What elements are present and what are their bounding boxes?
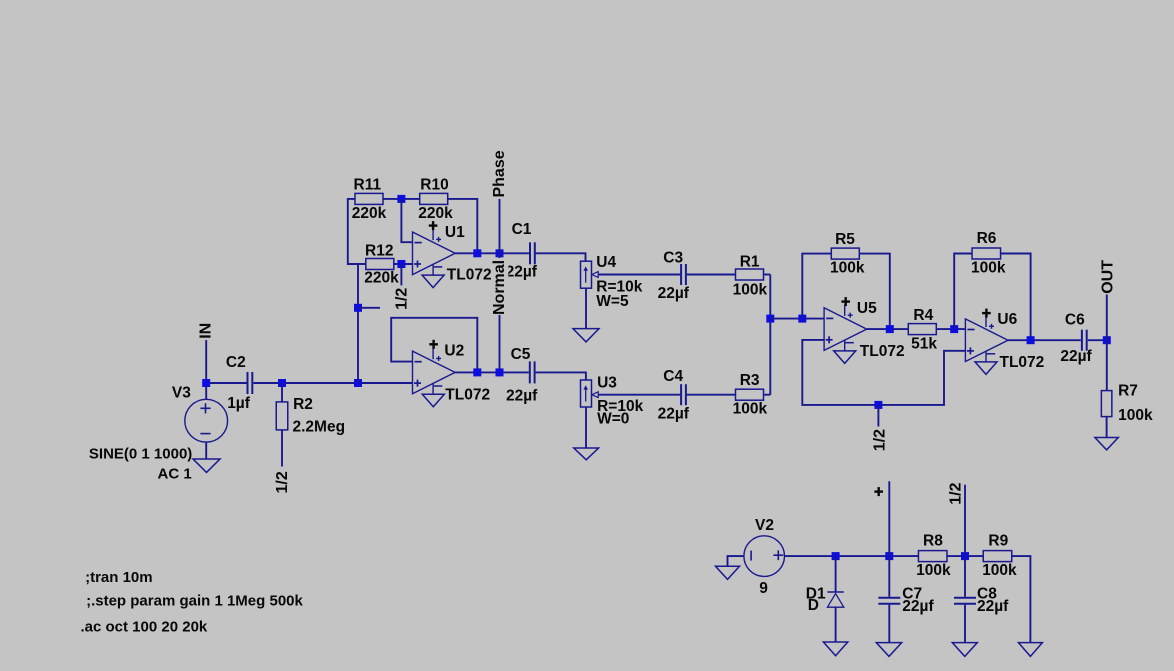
capacitor C1 — [530, 242, 535, 264]
resistor R7 — [1101, 391, 1112, 417]
wire R5 left lead — [802, 254, 831, 319]
svg-text:100k: 100k — [733, 282, 768, 299]
net + label at U5 V+ — [841, 297, 850, 306]
svg-text:V2: V2 — [755, 517, 774, 534]
svg-text:TL072: TL072 — [447, 267, 492, 284]
svg-text:R12: R12 — [365, 242, 393, 259]
diode D1 — [827, 592, 843, 607]
svg-text:C3: C3 — [663, 249, 683, 266]
wire mix to U5 inverting input — [770, 318, 824, 320]
ground V3 — [193, 459, 220, 472]
resistor R12 — [366, 259, 394, 270]
node half rail junction — [874, 401, 882, 409]
resistor R3 — [736, 389, 764, 400]
svg-text:9: 9 — [759, 580, 768, 597]
svg-text:C1: C1 — [512, 221, 532, 238]
svg-text:22µf: 22µf — [506, 387, 538, 404]
wire U2 feedback loop — [391, 318, 477, 373]
wire C7 top lead — [888, 556, 890, 597]
svg-text:.ac oct 100 20 20k: .ac oct 100 20 20k — [81, 619, 208, 636]
svg-text:OUT: OUT — [1099, 260, 1116, 294]
capacitor C4 — [681, 384, 686, 405]
resistor R4 — [908, 324, 936, 335]
ground U2 V- — [422, 394, 444, 407]
wire U2 output — [455, 371, 529, 373]
node U6 output junction — [1027, 336, 1035, 344]
svg-text:C2: C2 — [226, 354, 246, 371]
wire C1 to U4 — [536, 253, 586, 261]
wire R4 to U6 — [937, 328, 966, 330]
svg-text:R1: R1 — [740, 253, 760, 270]
node Phase junction — [496, 249, 504, 257]
wire R10 right to U1 output — [447, 199, 477, 253]
ground U4 — [573, 329, 599, 342]
svg-text:51k: 51k — [911, 335, 937, 352]
wire IN stub — [205, 340, 207, 383]
svg-text:D: D — [808, 597, 819, 614]
wire R11 to R10 — [383, 198, 420, 200]
node Normal junction — [496, 368, 504, 376]
svg-text:V3: V3 — [172, 385, 191, 402]
V2 plus mark — [773, 550, 783, 560]
V3 minus mark — [200, 433, 210, 435]
svg-text:TL072: TL072 — [1000, 354, 1045, 371]
wire plus rail — [888, 481, 890, 556]
svg-text:U6: U6 — [997, 311, 1017, 328]
op-amp U5 — [824, 304, 867, 351]
ground U1 V- — [422, 275, 444, 288]
wire R5 right lead — [859, 254, 889, 330]
svg-text:220k: 220k — [352, 205, 387, 222]
node OUT junction — [1103, 336, 1111, 344]
svg-text:Normal: Normal — [491, 260, 508, 315]
node 1/2 tap junction — [354, 304, 362, 312]
svg-text:220k: 220k — [364, 269, 399, 286]
svg-text:Phase: Phase — [491, 150, 508, 197]
wire R12 left lead — [358, 263, 366, 265]
wire U3 bottom to ground — [585, 407, 587, 448]
ground C8 — [952, 643, 977, 657]
node U5 feedback junction — [798, 315, 806, 323]
wire R1-R3 vertical — [769, 275, 771, 395]
wire V3 bottom lead — [205, 442, 207, 459]
wire C6 to OUT — [1088, 339, 1107, 341]
svg-text:R5: R5 — [835, 231, 855, 248]
resistor R5 — [831, 248, 859, 259]
wire R9 right to ground — [1012, 556, 1031, 643]
svg-text:W=0: W=0 — [597, 411, 629, 428]
svg-text:W=5: W=5 — [596, 293, 629, 310]
net Normal label background — [493, 258, 509, 315]
wire U1 output — [455, 252, 529, 254]
wire R11 left feedback — [348, 199, 358, 264]
wire U5 output — [867, 328, 908, 330]
ground D1 — [823, 642, 847, 656]
svg-text:100k: 100k — [916, 562, 951, 579]
wire U6 output — [1008, 339, 1081, 341]
svg-text:U4: U4 — [596, 254, 616, 271]
node R4-R6 junction — [950, 325, 958, 333]
ground V2 — [716, 566, 740, 579]
svg-text:C4: C4 — [663, 368, 683, 385]
svg-text:C6: C6 — [1065, 312, 1085, 329]
capacitor C6 — [1082, 330, 1087, 351]
svg-text:IN: IN — [198, 323, 215, 339]
ground U6 V- — [975, 362, 997, 375]
wire C5 to U3 — [536, 372, 586, 380]
capacitor C8 — [954, 598, 976, 604]
ground R7 — [1095, 438, 1118, 450]
wire 1/2 tap stub — [358, 307, 380, 309]
capacitor C3 — [681, 264, 686, 285]
potentiometer U3 — [581, 380, 599, 407]
capacitor C5 — [530, 361, 535, 383]
wire C8 bottom lead — [964, 605, 966, 643]
wire R2 bottom lead — [281, 430, 283, 467]
wire 1/2 stub below R12 junction — [400, 264, 402, 285]
wire R7 bottom lead — [1106, 417, 1108, 438]
wire half supply rail — [964, 485, 966, 556]
wire R7 top lead — [1106, 340, 1108, 390]
ground U3 — [574, 448, 599, 460]
V2 minus mark — [750, 551, 752, 561]
wire Normal net vertical — [499, 253, 501, 372]
wire R2 top lead — [281, 383, 283, 402]
resistor R1 — [736, 269, 764, 280]
V3 plus mark — [200, 403, 210, 413]
svg-text:100k: 100k — [733, 401, 768, 418]
svg-text:R10: R10 — [420, 176, 448, 193]
wire C3 to R1 — [687, 274, 736, 276]
node input junction — [202, 379, 210, 387]
net + label on supply rail — [874, 487, 883, 496]
resistor R11 — [355, 193, 383, 204]
svg-text:R2: R2 — [293, 396, 313, 413]
svg-text:22µf: 22µf — [658, 405, 690, 422]
svg-text:AC 1: AC 1 — [158, 466, 192, 483]
svg-text:100k: 100k — [1118, 407, 1153, 424]
wire U3 wiper to C4 — [598, 394, 680, 396]
svg-text:22µf: 22µf — [506, 263, 538, 280]
wire D1 top lead — [835, 556, 837, 592]
wire R6 right lead — [1001, 254, 1031, 341]
svg-text:U3: U3 — [597, 374, 617, 391]
node C7 junction — [885, 552, 893, 560]
resistor R2 — [276, 402, 288, 430]
svg-text:220k: 220k — [418, 205, 453, 222]
svg-text:R11: R11 — [354, 176, 382, 193]
node R12 right junction — [397, 260, 405, 268]
svg-text:22µf: 22µf — [658, 285, 690, 302]
wire Phase stub — [499, 199, 501, 253]
ground C7 — [876, 643, 901, 657]
ground R9 — [1018, 643, 1042, 657]
node U2 output junction — [473, 368, 481, 376]
svg-text:U2: U2 — [444, 342, 464, 359]
svg-text:R7: R7 — [1118, 383, 1138, 400]
svg-text:TL072: TL072 — [445, 387, 490, 404]
wire half rail — [802, 340, 965, 405]
svg-text:R4: R4 — [913, 307, 933, 324]
svg-text:100k: 100k — [971, 259, 1006, 276]
net + label at U1 V+ — [429, 221, 438, 230]
svg-text:R3: R3 — [740, 372, 760, 389]
svg-text:1/2: 1/2 — [274, 471, 291, 493]
wire R12 to U1 plus input — [393, 263, 412, 265]
node mix junction — [766, 315, 774, 323]
node R2 junction — [278, 379, 286, 387]
resistor R10 — [420, 193, 448, 204]
svg-text:U5: U5 — [857, 300, 877, 317]
svg-text:22µf: 22µf — [977, 598, 1009, 615]
wire OUT stub — [1106, 295, 1108, 341]
svg-text:SINE(0 1 1000): SINE(0 1 1000) — [89, 445, 192, 462]
voltage source V3 — [185, 399, 228, 442]
wire D1 bottom lead — [835, 607, 837, 642]
svg-text:R8: R8 — [923, 533, 943, 550]
wire V3 top lead — [205, 383, 207, 399]
svg-text:R9: R9 — [988, 533, 1008, 550]
svg-text:1/2: 1/2 — [948, 482, 965, 504]
svg-text:1µf: 1µf — [227, 395, 251, 412]
node U5 output junction — [886, 325, 894, 333]
svg-text:;.step param gain 1 1Meg 500k: ;.step param gain 1 1Meg 500k — [86, 592, 303, 609]
wire V2 left to ground — [728, 556, 744, 566]
svg-text:U1: U1 — [445, 224, 465, 241]
wire U4 bottom to ground — [585, 288, 587, 328]
wire R6 left lead — [954, 254, 972, 330]
svg-text:22µf: 22µf — [902, 598, 934, 615]
resistor R9 — [983, 551, 1012, 562]
wire input node to C2 — [206, 382, 246, 384]
wire R8 to R9 — [947, 555, 983, 557]
wire U4 wiper to C3 — [598, 274, 680, 276]
capacitor C2 — [248, 372, 253, 394]
wire half rail label stub — [877, 405, 879, 427]
wire V2 to R8 — [785, 555, 919, 557]
svg-text:R6: R6 — [977, 230, 997, 247]
wire U1 inverting input — [401, 199, 412, 242]
wire R1 right lead — [764, 274, 771, 276]
net + label at U2 V+ — [429, 340, 438, 349]
op-amp U6 — [965, 316, 1008, 363]
svg-text:100k: 100k — [982, 562, 1017, 579]
wire C7 bottom lead — [888, 605, 890, 643]
net + label at U6 V+ — [982, 309, 991, 318]
svg-text:TL072: TL072 — [860, 343, 905, 360]
wire x358 vertical — [357, 264, 359, 383]
op-amp U2 — [413, 348, 456, 395]
wire C8 top lead — [964, 556, 966, 597]
wire R3 right lead — [764, 394, 771, 396]
resistor R8 — [918, 551, 947, 562]
svg-text:;tran 10m: ;tran 10m — [85, 569, 153, 586]
ground U5 V- — [834, 351, 856, 364]
capacitor C7 — [878, 598, 900, 604]
node C8 junction — [961, 552, 969, 560]
svg-text:22µf: 22µf — [1060, 348, 1092, 365]
svg-text:100k: 100k — [830, 260, 865, 277]
node main junction at x358 — [354, 379, 362, 387]
node R11-R10 junction — [397, 195, 405, 203]
node U1 output junction — [473, 249, 481, 257]
node D1 junction — [832, 552, 840, 560]
potentiometer U4 — [581, 261, 599, 288]
wire C2 to U2 plus input — [253, 382, 412, 384]
svg-text:2.2Meg: 2.2Meg — [293, 419, 346, 436]
resistor R6 — [972, 248, 1001, 259]
wire C4 to R3 — [687, 394, 736, 396]
op-amp U1 — [413, 229, 456, 276]
svg-text:1/2: 1/2 — [394, 288, 411, 310]
svg-text:1/2: 1/2 — [872, 429, 889, 451]
voltage source V2 — [744, 536, 785, 577]
svg-text:C5: C5 — [511, 346, 531, 363]
